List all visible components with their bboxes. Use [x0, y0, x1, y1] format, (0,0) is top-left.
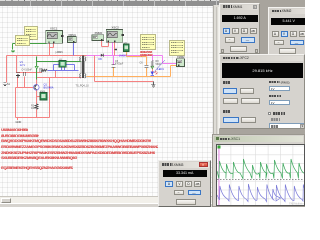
wire: capacitor C4 bottom lead: [24, 77, 26, 88]
top ruler: [0, 0, 222, 6]
resistor R5: [42, 69, 48, 72]
svg-text:1N4007: 1N4007: [119, 55, 128, 57]
wire: blue bus upper: [54, 64, 75, 66]
wire: magenta stub to R8: [152, 56, 154, 61]
wire: C5 lead upper: [113, 56, 115, 65]
schematic canvas: [0, 5, 213, 196]
wire: riser battery node: [16, 56, 18, 73]
wire: emitter chain through R2: [36, 97, 38, 118]
svg-text:4N25: 4N25: [40, 91, 46, 93]
comment note C: [140, 34, 156, 50]
wire: transformer primary return riser: [49, 78, 51, 118]
svg-text:BUX48A: BUX48A: [44, 86, 54, 90]
vertical scrollbar strip: [213, 5, 219, 196]
wire: Q1 emitter to U2: [37, 91, 41, 97]
svg-text:4700µF: 4700µF: [115, 63, 124, 66]
svg-text:12 V: 12 V: [20, 63, 26, 67]
window multimeter XMM3: [158, 160, 211, 208]
wire: bottom rail: [16, 117, 50, 119]
wire: battery top node: [17, 72, 42, 74]
multimeter icon XMM1: [68, 37, 77, 43]
wire: secondary red rail: [95, 56, 154, 82]
wire: blue verticals: [54, 65, 75, 71]
net label GND: [16, 118, 22, 124]
junction cross: [115, 48, 117, 50]
wire: Q1 base node: [16, 87, 34, 89]
IC U1: [59, 61, 66, 68]
status bar: [0, 203, 305, 208]
resistor R8: [151, 60, 153, 67]
wire: magenta drop to XMM2: [163, 56, 177, 64]
panel multimeter XMM2: [268, 7, 309, 59]
app background behind panels: [219, 0, 305, 203]
wire: stub riser x55: [55, 71, 57, 78]
wire: blue bus lower: [48, 70, 79, 72]
LED LED1: [151, 71, 158, 76]
wire: collector to transformer primary bottom: [37, 77, 82, 79]
trigger cursor line: [218, 145, 220, 206]
capacitor C6: [144, 65, 148, 68]
comment note B: [15, 35, 30, 46]
wire: R8 to LED lead: [152, 68, 154, 72]
transformer core: [82, 56, 84, 79]
wire: scope1 pin wires: [50, 44, 54, 56]
svg-text:XMM1: XMM1: [68, 33, 76, 37]
transistor Q1: [34, 85, 40, 91]
red annotation under note C: [140, 51, 155, 54]
horizontal scrollbar: [0, 196, 213, 203]
wire: XMM1 blue drop: [73, 43, 75, 56]
trigger marker: [217, 146, 220, 149]
oscilloscope window XSC1: [212, 134, 306, 207]
svg-text:560Ω: 560Ω: [156, 63, 162, 66]
wire: primary red bus: [7, 55, 95, 57]
oscilloscope icon XSC1: [46, 31, 64, 44]
wire: scope2 red pins: [102, 41, 115, 56]
svg-text:10Ω: 10Ω: [31, 107, 36, 110]
svg-text:⌠AM#1: ⌠AM#1: [55, 51, 63, 54]
svg-text:C6: C6: [140, 62, 144, 65]
svg-text:S1: S1: [7, 83, 11, 86]
wire: secondary magenta bus: [87, 55, 163, 57]
svg-text:C4 100nF: C4 100nF: [22, 69, 33, 72]
wire: Q1 collector: [36, 78, 38, 85]
ground marker on green riser: [35, 66, 38, 69]
capacitor C5: [111, 65, 115, 68]
wire: left bottom riser: [15, 88, 17, 118]
resistor R2: [35, 104, 38, 109]
multimeter icon XMM2: [177, 59, 185, 67]
multimeter icon XMM4: [92, 35, 104, 41]
channel A waveform: [217, 159, 306, 179]
svg-text:LED1: LED1: [157, 67, 164, 71]
comment note A: [24, 26, 38, 40]
transformer T1: [80, 57, 86, 78]
svg-text:XMM4: XMM4: [95, 31, 103, 35]
svg-text:XSC1: XSC1: [50, 26, 58, 30]
wire: C5 lead lower: [113, 68, 115, 77]
rectifier U3: [124, 44, 130, 52]
panel frequency counter XFC2: [219, 54, 305, 129]
green net triangle: [151, 66, 154, 69]
svg-text:47Ω: 47Ω: [39, 70, 44, 73]
wire: green to transformer primary top: [37, 61, 82, 63]
ground G1: [11, 50, 15, 52]
svg-text:XSC2: XSC2: [112, 26, 120, 30]
red description text: [1, 128, 28, 131]
label LED1: [155, 60, 166, 72]
optocoupler U2: [40, 93, 47, 101]
comment note D: [169, 40, 185, 56]
wire: orange from U3: [127, 52, 147, 77]
svg-text:GND: GND: [16, 120, 22, 124]
svg-text:D6: D6: [99, 57, 103, 61]
wire: battery bottom lead: [17, 78, 19, 88]
oscilloscope icon XSC2: [106, 30, 124, 43]
wire: ground stem G3: [153, 82, 155, 85]
wire: green scope1 ground net: [13, 44, 47, 50]
wire: scope2 magenta drop: [112, 42, 114, 56]
connector S1: [3, 83, 11, 86]
wire: orange to XMM2 bottom: [153, 66, 177, 77]
zero axis dashed: [217, 179, 305, 181]
svg-text:XMM2: XMM2: [177, 55, 185, 59]
diode D6: [101, 54, 104, 57]
ground G3: [151, 85, 155, 87]
panel multimeter XMM1: [219, 3, 261, 55]
scope grid: [217, 145, 305, 206]
wire: left riser to S1: [6, 56, 8, 83]
wire: orange bus: [87, 76, 153, 78]
battery V1: [16, 73, 20, 77]
wire: green riser from bus: [36, 57, 38, 80]
channel B waveform: [217, 184, 311, 202]
capacitor C4: [24, 72, 26, 76]
svg-text:©NI Multisim: ©NI Multisim: [289, 202, 304, 206]
svg-text:TS_PQ4_10: TS_PQ4_10: [76, 85, 90, 88]
